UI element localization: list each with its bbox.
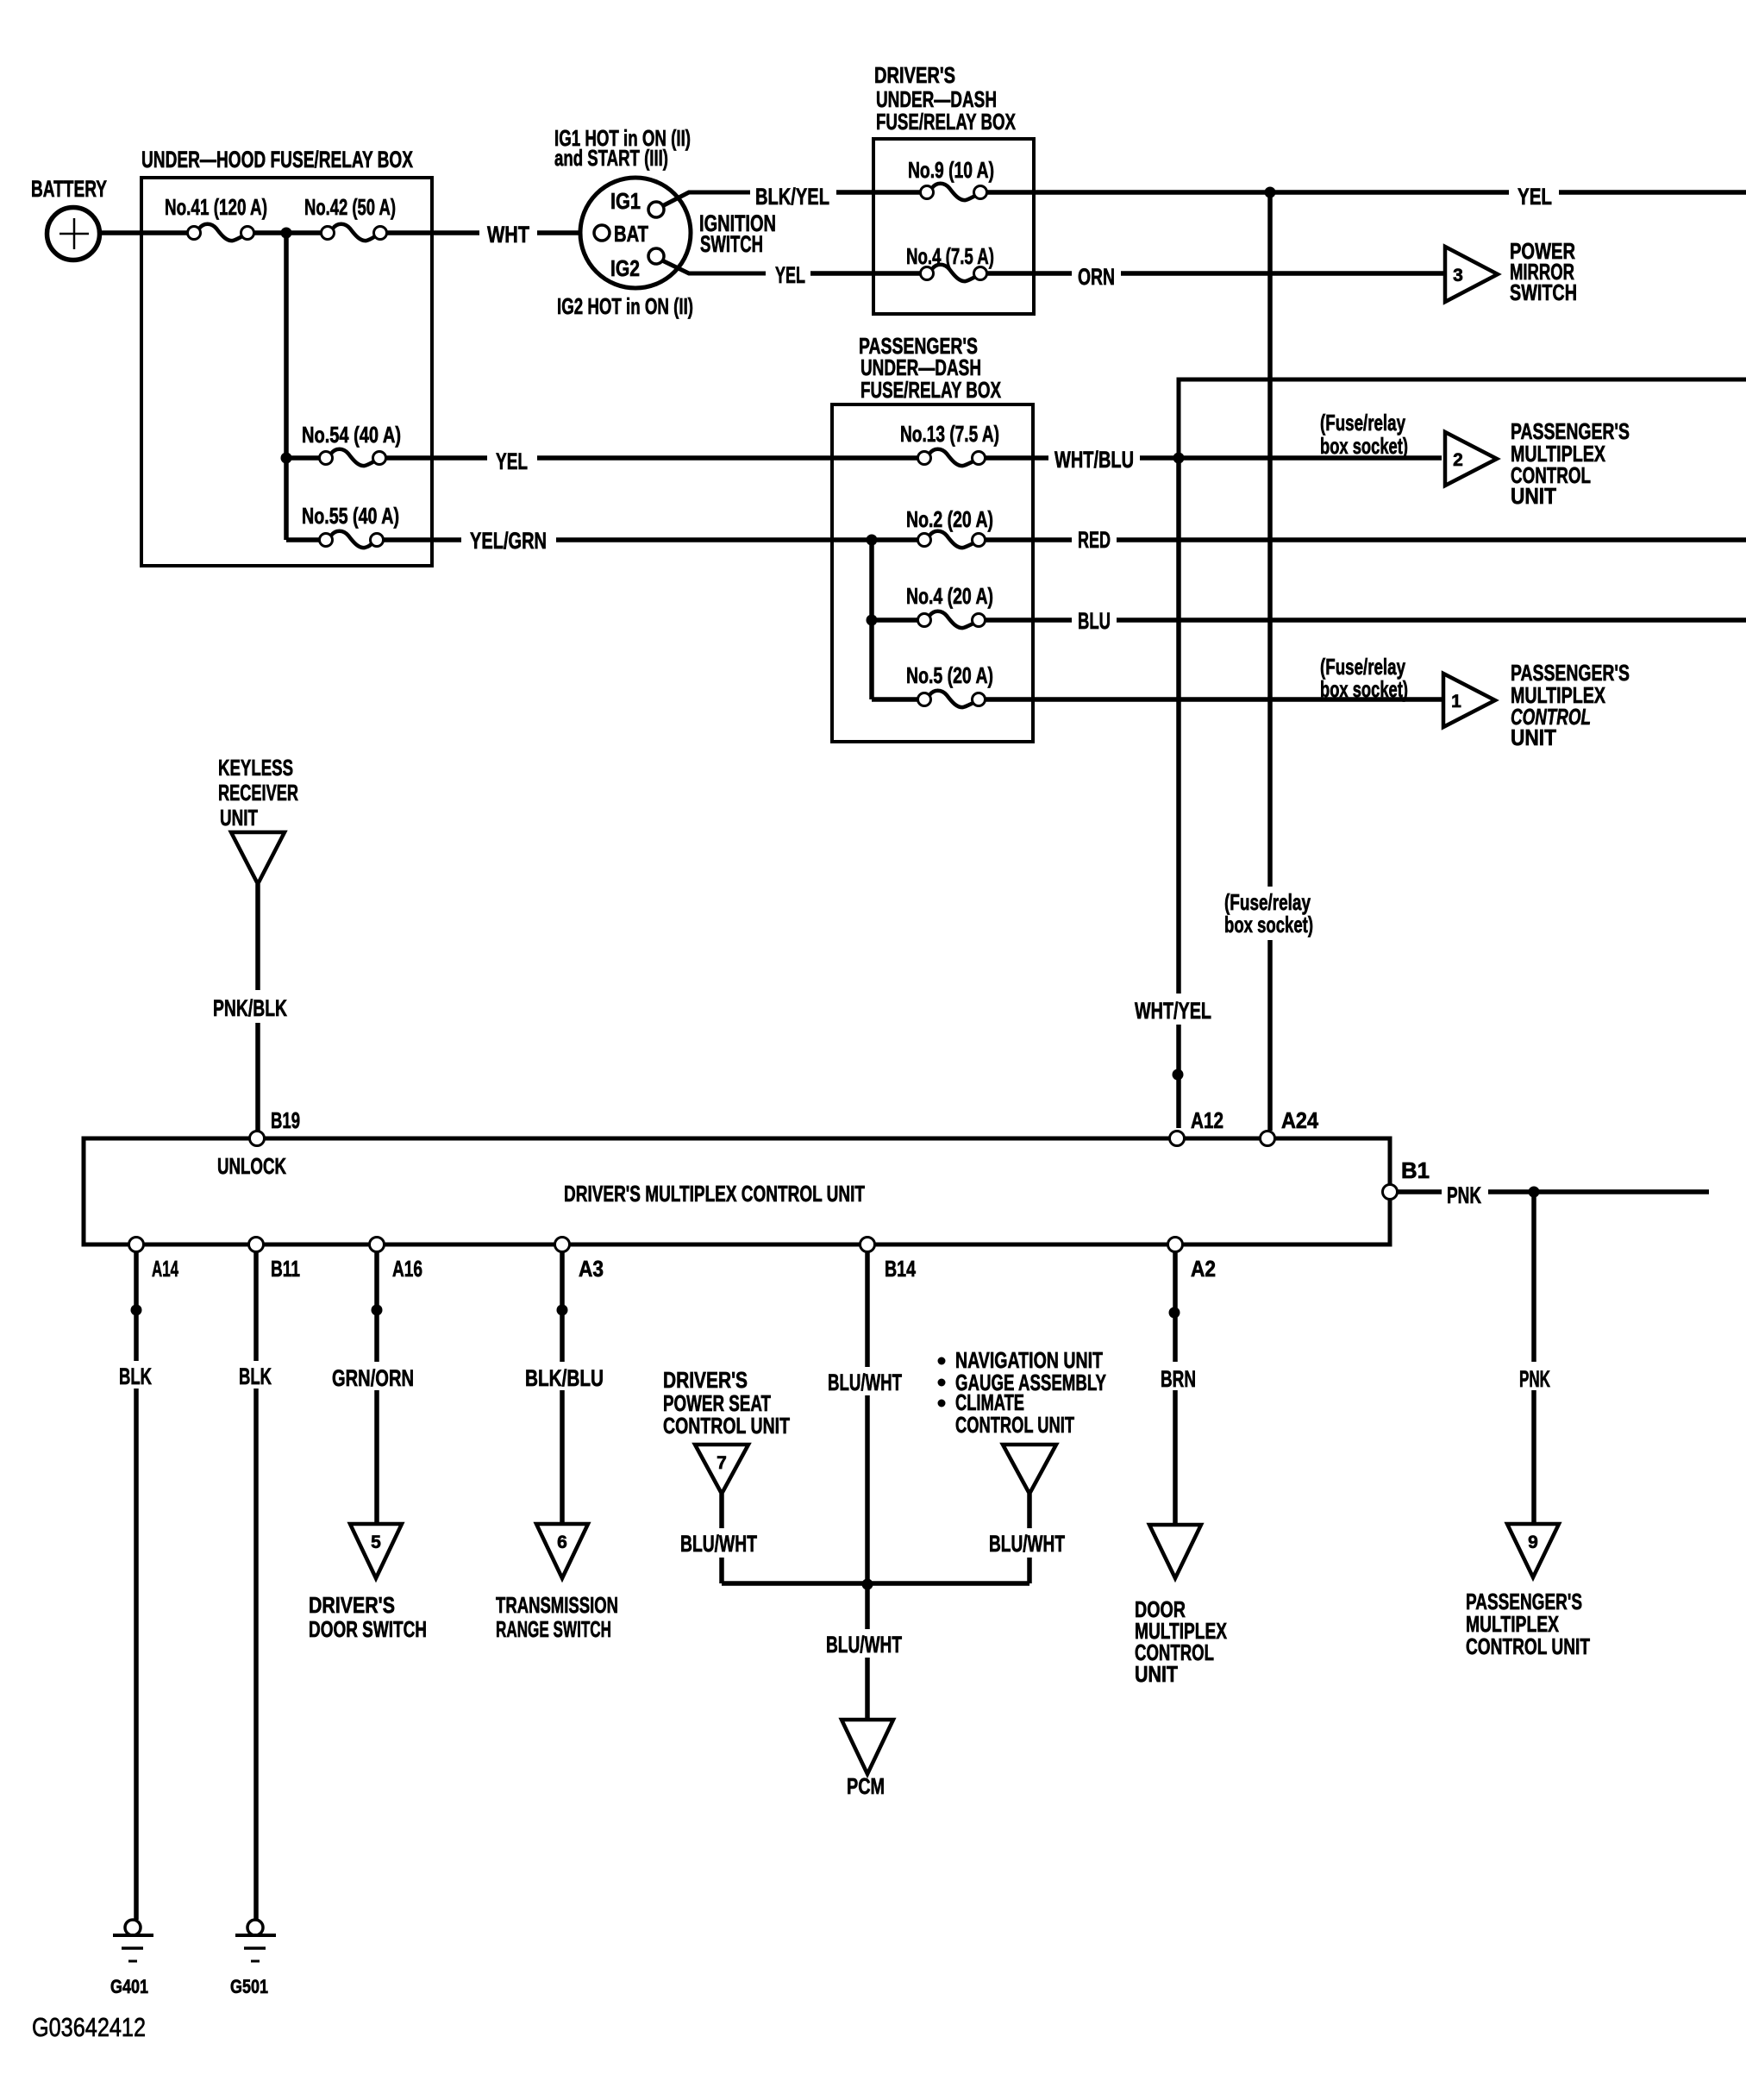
- svg-text:No.9 (10 A): No.9 (10 A): [908, 157, 994, 183]
- fuse No.9 (10A): [921, 186, 934, 199]
- svg-text:UNIT: UNIT: [1135, 1661, 1178, 1687]
- svg-text:box socket): box socket): [1224, 912, 1313, 937]
- svg-text:No.13 (7.5 A): No.13 (7.5 A): [900, 421, 999, 447]
- svg-text:TRANSMISSION: TRANSMISSION: [496, 1592, 618, 1618]
- wire BLU to right edge: [1117, 617, 1746, 623]
- junction node A14: [131, 1305, 142, 1316]
- wire fuse4 to BLU label: [985, 617, 1072, 623]
- svg-text:ORN: ORN: [1078, 264, 1115, 290]
- svg-text:and START (III): and START (III): [554, 145, 668, 171]
- svg-text:G501: G501: [230, 1976, 268, 1997]
- svg-text:SWITCH: SWITCH: [1510, 279, 1577, 305]
- wire WHT/YEL vertical upper: [1176, 458, 1181, 994]
- ignition switch pin BAT: [594, 225, 610, 241]
- svg-text:No.42 (50 A): No.42 (50 A): [304, 194, 396, 220]
- junction node A2: [1169, 1307, 1180, 1319]
- svg-text:UNIT: UNIT: [220, 805, 258, 831]
- wire A2 lower: [1173, 1390, 1178, 1525]
- wire top distribution corner: [1179, 379, 1746, 460]
- svg-text:DRIVER'S MULTIPLEX CONTROL UNI: DRIVER'S MULTIPLEX CONTROL UNIT: [564, 1181, 865, 1207]
- svg-text:YEL: YEL: [1518, 184, 1552, 210]
- svg-text:No.41 (120 A): No.41 (120 A): [165, 194, 267, 220]
- wire A16 upper: [374, 1252, 379, 1362]
- wire fuse41 to fuse42: [253, 230, 322, 235]
- wire BLK/YEL to driver fuse No.9: [836, 190, 921, 195]
- svg-text:FUSE/RELAY BOX: FUSE/RELAY BOX: [860, 377, 1001, 403]
- svg-text:G401: G401: [110, 1976, 148, 1997]
- svg-text:BLU/WHT: BLU/WHT: [680, 1531, 757, 1557]
- svg-text:UNDER—HOOD FUSE/RELAY BOX: UNDER—HOOD FUSE/RELAY BOX: [141, 147, 413, 172]
- svg-text:box socket): box socket): [1320, 433, 1408, 459]
- svg-text:DRIVER'S: DRIVER'S: [309, 1592, 395, 1618]
- svg-text:RANGE SWITCH: RANGE SWITCH: [496, 1616, 611, 1642]
- wire RED to right edge: [1117, 537, 1746, 542]
- ground G401: [125, 1920, 141, 1935]
- pin B19: [250, 1131, 265, 1146]
- wire YEL to right edge: [1559, 190, 1746, 195]
- connector 3 power mirror switch: [1445, 247, 1498, 302]
- svg-text:PNK: PNK: [1519, 1366, 1550, 1392]
- svg-text:YEL/GRN: YEL/GRN: [470, 528, 547, 554]
- svg-text:box socket): box socket): [1320, 676, 1408, 702]
- fuse No.54 (40A): [286, 455, 320, 461]
- driver's under-dash fuse/relay box: [873, 139, 1034, 314]
- junction node A16: [372, 1305, 383, 1316]
- bullet list climate control unit: [938, 1400, 946, 1407]
- bullet list gauge assembly: [938, 1379, 946, 1387]
- pin B14: [860, 1238, 875, 1252]
- bullet list navigation unit: [938, 1357, 946, 1365]
- ignition switch body: [580, 178, 691, 288]
- svg-text:(Fuse/relay: (Fuse/relay: [1320, 410, 1405, 436]
- wire ORN to power mirror switch: [1121, 271, 1443, 276]
- wire fuse13 to WHT/BLU label: [985, 455, 1048, 461]
- svg-text:BLK/YEL: BLK/YEL: [755, 184, 829, 210]
- wire B14 upper: [865, 1252, 870, 1367]
- svg-text:BLK/BLU: BLK/BLU: [525, 1365, 604, 1391]
- fuse No.5 (20A): [872, 697, 918, 702]
- svg-text:BLU/WHT: BLU/WHT: [826, 1632, 902, 1658]
- wire YEL to driver fuse No.4: [810, 271, 921, 276]
- svg-text:A2: A2: [1191, 1256, 1216, 1282]
- connector climate control unit: [1003, 1445, 1056, 1494]
- svg-text:G03642412: G03642412: [32, 2012, 146, 2042]
- fuse No.4 (7.5A): [921, 267, 934, 280]
- ground G501: [247, 1920, 263, 1935]
- wire B11 upper: [253, 1252, 259, 1361]
- junction node main feed: [281, 228, 292, 239]
- fuse No.42 (50A): [322, 227, 335, 240]
- svg-text:PNK/BLK: PNK/BLK: [213, 995, 287, 1021]
- svg-text:No.54 (40 A): No.54 (40 A): [302, 422, 401, 448]
- connector 9 passenger multiplex: [1507, 1524, 1559, 1577]
- wire WHT/BLU to connector 2: [1140, 455, 1442, 461]
- svg-text:PNK: PNK: [1447, 1182, 1481, 1208]
- svg-text:B1: B1: [1401, 1157, 1430, 1183]
- svg-text:RECEIVER: RECEIVER: [218, 780, 298, 806]
- svg-text:3: 3: [1453, 266, 1463, 285]
- svg-text:BAT: BAT: [614, 221, 648, 247]
- svg-text:UNLOCK: UNLOCK: [217, 1153, 286, 1179]
- wire PNK vertical lower: [1531, 1390, 1536, 1524]
- wire IG2 to YEL: [662, 260, 766, 273]
- svg-text:1: 1: [1451, 692, 1461, 711]
- svg-text:BLU: BLU: [1078, 608, 1111, 634]
- junction node WHT/YEL: [1173, 1069, 1184, 1081]
- wire fuse9 to YEL right: [986, 190, 1509, 195]
- wire YEL to passenger fuse No.13: [537, 455, 918, 461]
- fuse No.55 (40A): [286, 537, 320, 542]
- pin A14: [129, 1238, 144, 1252]
- driver's multiplex control unit box: [84, 1138, 1390, 1244]
- wire A16 lower: [374, 1390, 379, 1524]
- wire PNK vertical upper: [1531, 1192, 1536, 1362]
- wire WHT to ignition BAT: [537, 230, 594, 235]
- svg-text:IG2 HOT in ON (II): IG2 HOT in ON (II): [557, 293, 693, 319]
- wire climate stem upper: [1027, 1494, 1032, 1528]
- svg-text:YEL: YEL: [775, 262, 805, 288]
- svg-text:DRIVER'S: DRIVER'S: [663, 1367, 748, 1393]
- svg-text:No.4 (7.5 A): No.4 (7.5 A): [906, 243, 994, 269]
- junction node fuse2 feed: [867, 535, 878, 546]
- passenger box internal feed: [869, 540, 874, 699]
- wire BLU/WHT bus: [722, 1581, 1029, 1586]
- wire PNK/BLK to B19: [255, 1023, 260, 1131]
- connector 1 passenger multiplex: [1443, 674, 1495, 727]
- pin A2: [1168, 1238, 1183, 1252]
- svg-text:IG1: IG1: [610, 188, 641, 214]
- wire BLU/WHT to PCM: [865, 1658, 870, 1720]
- junction node BLU/WHT bus: [862, 1579, 873, 1590]
- svg-text:DOOR SWITCH: DOOR SWITCH: [309, 1616, 427, 1642]
- svg-text:CONTROL UNIT: CONTROL UNIT: [1466, 1633, 1590, 1659]
- connector PCM: [842, 1720, 893, 1774]
- junction node fuse54 feed: [281, 453, 292, 464]
- wire B11 lower: [253, 1389, 259, 1920]
- wire vertical feed to fuse54/55: [284, 233, 289, 540]
- svg-text:RED: RED: [1078, 527, 1111, 553]
- keyless receiver unit connector: [231, 832, 285, 884]
- svg-text:2: 2: [1453, 450, 1463, 470]
- junction node fuse4 feed: [867, 615, 878, 626]
- svg-text:DRIVER'S: DRIVER'S: [874, 62, 955, 88]
- wire B1 to PNK label: [1398, 1189, 1442, 1194]
- junction node PNK: [1529, 1187, 1540, 1198]
- wire A14 lower: [134, 1389, 139, 1920]
- svg-text:BLU/WHT: BLU/WHT: [989, 1531, 1065, 1557]
- wire fuse54 to YEL label: [385, 455, 487, 461]
- wire climate stem lower: [1027, 1558, 1032, 1583]
- connector 2 passenger multiplex: [1445, 432, 1497, 486]
- wire fuse2 to RED label: [985, 537, 1072, 542]
- wire junction to PCM label: [865, 1584, 870, 1629]
- svg-text:YEL: YEL: [496, 448, 528, 474]
- wire fuse42 to WHT label: [386, 230, 479, 235]
- fuse No.4 (20A): [872, 617, 918, 623]
- svg-text:FUSE/RELAY BOX: FUSE/RELAY BOX: [876, 109, 1016, 135]
- junction node WHT/BLU: [1173, 453, 1185, 464]
- svg-text:9: 9: [1528, 1533, 1538, 1552]
- svg-text:A24: A24: [1281, 1107, 1318, 1133]
- wire fuse4 to ORN label: [986, 271, 1072, 276]
- connector door multiplex control unit: [1149, 1525, 1201, 1578]
- svg-text:UNIT: UNIT: [1511, 483, 1556, 509]
- svg-text:A16: A16: [392, 1256, 422, 1282]
- wire B14 to junction: [865, 1395, 870, 1584]
- svg-text:5: 5: [371, 1533, 381, 1552]
- pin A12: [1170, 1131, 1185, 1146]
- wire connector7 stem upper: [719, 1494, 724, 1528]
- svg-text:No.5 (20 A): No.5 (20 A): [906, 662, 993, 688]
- wire connector7 stem lower: [719, 1558, 724, 1583]
- wire fuse55 to YEL/GRN label: [383, 537, 461, 542]
- wire keyless to PNK/BLK label: [255, 884, 260, 990]
- svg-text:B14: B14: [885, 1256, 916, 1282]
- svg-text:A12: A12: [1191, 1107, 1223, 1133]
- svg-text:A14: A14: [152, 1256, 178, 1282]
- junction node YEL feed: [1265, 187, 1276, 198]
- wire A3 upper: [560, 1252, 565, 1362]
- pin A16: [370, 1238, 385, 1252]
- svg-text:6: 6: [557, 1533, 567, 1552]
- pin B11: [249, 1238, 264, 1252]
- svg-text:IG2: IG2: [610, 255, 640, 281]
- fuse No.2 (20A): [918, 534, 931, 547]
- ignition switch pin IG2: [648, 248, 664, 264]
- connector 7 driver's power seat: [695, 1445, 748, 1494]
- junction node A3: [557, 1305, 568, 1316]
- svg-text:B11: B11: [271, 1256, 300, 1282]
- svg-text:7: 7: [717, 1453, 727, 1473]
- svg-text:CONTROL UNIT: CONTROL UNIT: [955, 1412, 1074, 1438]
- svg-text:B19: B19: [271, 1107, 300, 1133]
- fuse No.13 (7.5A): [918, 452, 931, 465]
- wire YEL/GRN to passenger fuse No.2: [556, 537, 918, 542]
- svg-text:WHT: WHT: [487, 222, 529, 248]
- svg-text:BLU/WHT: BLU/WHT: [828, 1370, 902, 1395]
- pin A3: [555, 1238, 570, 1252]
- svg-text:No.55 (40 A): No.55 (40 A): [302, 503, 399, 529]
- svg-text:GRN/ORN: GRN/ORN: [332, 1365, 414, 1391]
- fuse No.41 (120A): [188, 227, 201, 240]
- svg-text:WHT/BLU: WHT/BLU: [1054, 447, 1134, 473]
- wire IG1 to BLK/YEL: [662, 192, 750, 206]
- connector 6 transmission range switch: [536, 1524, 588, 1578]
- svg-text:SWITCH: SWITCH: [700, 231, 763, 257]
- wire A3 lower: [560, 1390, 565, 1524]
- wire A2 upper: [1173, 1252, 1178, 1362]
- svg-text:A3: A3: [579, 1256, 604, 1282]
- wire fuse relay socket vertical lower: [1267, 940, 1273, 1131]
- pin A24: [1261, 1131, 1275, 1146]
- svg-text:BRN: BRN: [1161, 1366, 1196, 1392]
- svg-text:BATTERY: BATTERY: [31, 176, 107, 202]
- under-hood fuse/relay box: [141, 178, 432, 566]
- wire A14 upper: [134, 1252, 139, 1361]
- svg-text:CONTROL UNIT: CONTROL UNIT: [663, 1413, 790, 1439]
- ignition switch pin IG1: [648, 202, 664, 217]
- wire fuse relay socket vertical upper: [1267, 192, 1273, 887]
- wire battery to under-hood box: [98, 230, 189, 235]
- svg-text:KEYLESS: KEYLESS: [218, 755, 293, 780]
- pin B1: [1383, 1185, 1398, 1200]
- wire WHT/YEL vertical lower: [1176, 1025, 1181, 1128]
- svg-text:No.2 (20 A): No.2 (20 A): [906, 506, 993, 532]
- svg-text:UNIT: UNIT: [1511, 724, 1556, 750]
- svg-text:BLK: BLK: [119, 1363, 152, 1389]
- passenger's under-dash fuse/relay box: [832, 404, 1033, 742]
- wire PNK horizontal: [1488, 1189, 1709, 1194]
- svg-text:WHT/YEL: WHT/YEL: [1135, 998, 1211, 1024]
- svg-text:BLK: BLK: [239, 1363, 272, 1389]
- battery B+ terminal: [47, 208, 100, 260]
- svg-text:No.4 (20 A): No.4 (20 A): [906, 583, 993, 609]
- connector 5 driver's door switch: [350, 1524, 402, 1578]
- wire fuse5 to connector 1: [985, 697, 1442, 702]
- svg-text:PCM: PCM: [847, 1773, 885, 1799]
